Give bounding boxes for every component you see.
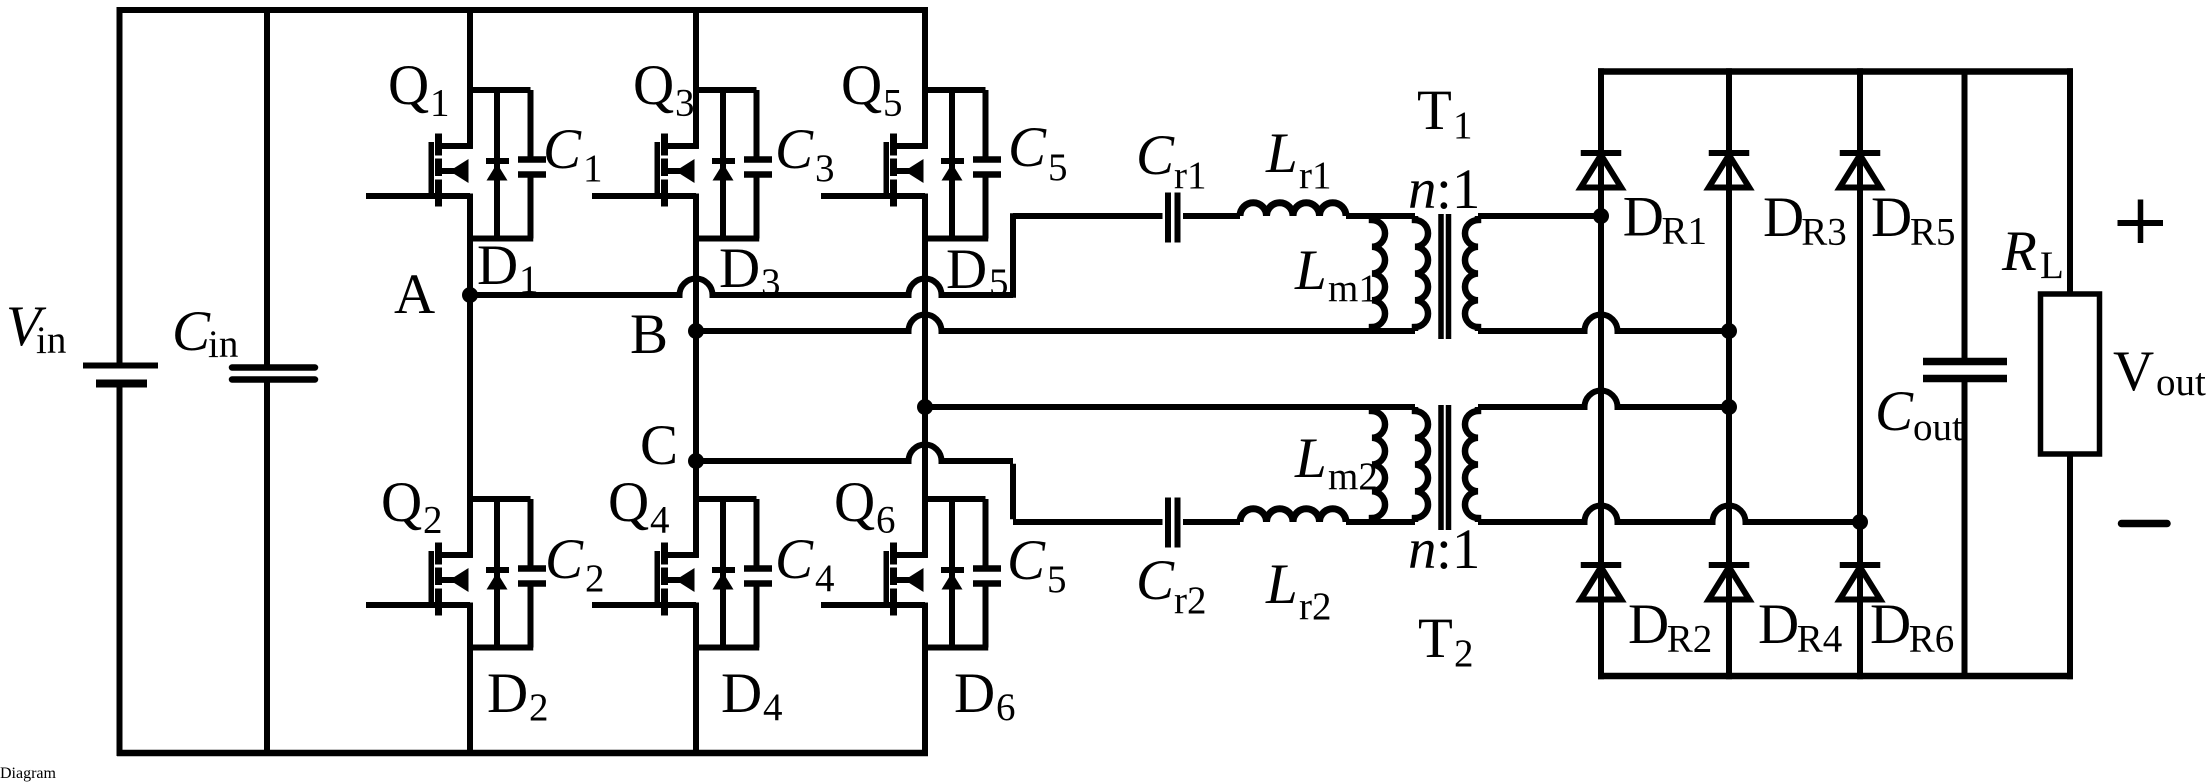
svg-text:r2: r2	[1299, 585, 1332, 628]
capacitor C1 (parallel with Q1)	[518, 90, 546, 239]
wire: rectifier top rail	[1598, 68, 2073, 75]
plus sign (output +)	[2118, 200, 2164, 244]
svg-text:C: C	[775, 528, 814, 591]
svg-text:4: 4	[650, 499, 670, 542]
svg-text:n: n	[1408, 518, 1437, 581]
inductor Lm1	[1372, 216, 1385, 331]
svg-text:L: L	[1294, 239, 1327, 302]
wire: node B to T1 primary bottom	[696, 315, 1415, 332]
svg-text:L: L	[1265, 122, 1298, 185]
svg-text:B: B	[630, 303, 668, 366]
resistor RL	[2041, 294, 2100, 454]
transistor Q1	[366, 134, 473, 242]
wire: Cr2 to Lr2	[1183, 519, 1240, 525]
wire: rectifier bottom rail	[1598, 673, 2073, 680]
capacitor C2 (parallel with Q2)	[518, 499, 546, 648]
svg-text:L: L	[2040, 244, 2064, 287]
wire: drain lead of Q4	[693, 461, 699, 558]
capacitor C5 (parallel with Q5)	[973, 90, 1001, 239]
svg-text:C: C	[1136, 549, 1175, 612]
svg-text:Q: Q	[633, 54, 674, 117]
svg-text:6: 6	[876, 499, 896, 542]
svg-text::1: :1	[1436, 518, 1480, 581]
svg-text:Q: Q	[388, 54, 429, 117]
svg-text:D: D	[487, 662, 528, 725]
wire: rectifier leg B	[1726, 68, 1732, 679]
svg-text:D: D	[1871, 186, 1912, 249]
svg-text:D: D	[719, 237, 760, 300]
wire: snubber loop of Q2	[470, 499, 533, 648]
svg-text:m1: m1	[1328, 267, 1378, 310]
svg-text:2: 2	[423, 499, 443, 542]
diode DR2	[1581, 565, 1622, 600]
capacitor Cin	[232, 7, 315, 756]
capacitor C4 (parallel with Q4)	[744, 499, 772, 648]
node A	[462, 287, 478, 303]
svg-text:4: 4	[815, 557, 835, 600]
svg-text:in: in	[208, 323, 238, 366]
wire: drain lead of Q6	[922, 407, 928, 558]
wire: drain lead of Q5	[922, 10, 928, 149]
wire: source lead of Q6	[922, 648, 928, 753]
svg-text:Q: Q	[834, 471, 875, 534]
svg-text:R6: R6	[1909, 618, 1955, 661]
svg-text:2: 2	[529, 686, 549, 729]
svg-text:D: D	[954, 662, 995, 725]
svg-text:out: out	[2156, 361, 2206, 404]
svg-text:A: A	[394, 263, 435, 326]
wire: snubber loop of Q1	[470, 90, 533, 239]
svg-text::1: :1	[1436, 158, 1480, 221]
svg-text:D: D	[1623, 185, 1664, 248]
svg-text:R5: R5	[1910, 211, 1956, 254]
svg-text:1: 1	[583, 147, 603, 190]
node C	[688, 453, 704, 469]
wire: RL leg lower	[2067, 452, 2073, 679]
svg-text:6: 6	[996, 686, 1016, 729]
diode D6 (body diode of Q6)	[941, 499, 964, 648]
svg-text:Q: Q	[841, 54, 882, 117]
svg-text:C: C	[1007, 529, 1046, 592]
wire: source lead of Q3	[693, 239, 699, 461]
wire: tank 2 line to Cr2	[1013, 519, 1163, 525]
capacitor Cout	[1923, 72, 2007, 677]
svg-text:out: out	[1913, 406, 1963, 449]
svg-text:R1: R1	[1662, 210, 1708, 253]
transistor Q2	[366, 543, 473, 651]
svg-text:D: D	[477, 234, 518, 297]
wire: snubber loop of Q4	[696, 499, 759, 648]
svg-text:L: L	[1294, 427, 1327, 490]
transformer T2 core	[1441, 405, 1449, 530]
node: T1 secondary top junction	[1593, 208, 1609, 224]
svg-text:D: D	[1870, 593, 1911, 656]
svg-text:r1: r1	[1299, 154, 1332, 197]
transformer T2 secondary winding	[1465, 407, 1478, 522]
svg-text:Q: Q	[381, 471, 422, 534]
transformer T1 secondary winding	[1465, 216, 1478, 331]
svg-text:4: 4	[763, 686, 783, 729]
wire: snubber loop of Q3	[696, 90, 759, 239]
svg-text:m2: m2	[1328, 455, 1378, 498]
wire: bottom input rail	[117, 750, 928, 757]
wire: rectifier leg A	[1598, 68, 1604, 679]
svg-text:r2: r2	[1174, 579, 1207, 622]
voltage source Vin	[83, 7, 158, 756]
wire: top input rail	[117, 7, 928, 13]
transistor Q4	[592, 543, 699, 651]
wire: source lead of Q1	[467, 239, 473, 295]
diode D3 (body diode of Q3)	[712, 90, 735, 239]
inductor Lr1	[1240, 203, 1346, 216]
wire: T2 secondary top to rectifier	[1478, 391, 1729, 407]
inductor Lr2	[1240, 509, 1346, 522]
svg-text:T: T	[1417, 79, 1452, 142]
svg-text:r1: r1	[1174, 154, 1207, 197]
svg-text:n: n	[1408, 158, 1437, 221]
node at leg 3 midpoint	[917, 399, 933, 415]
svg-text:C: C	[775, 118, 814, 181]
svg-text:D: D	[721, 662, 762, 725]
wire: snubber loop of Q6	[925, 499, 988, 648]
svg-text:3: 3	[675, 82, 695, 125]
svg-text:5: 5	[1048, 146, 1068, 189]
wire: T1 secondary top to rectifier	[1478, 213, 1601, 219]
wire: rectifier leg C	[1857, 68, 1863, 679]
svg-text:1: 1	[430, 82, 450, 125]
capacitor Cr1	[1168, 193, 1178, 243]
node: T2 secondary bottom junction	[1852, 514, 1868, 530]
wire: Cr1 to Lr1	[1183, 213, 1240, 219]
diode DR5	[1840, 153, 1881, 188]
svg-text:C: C	[1875, 380, 1914, 443]
wire: RL leg upper	[2067, 68, 2073, 296]
diode D1 (body diode of Q1)	[486, 90, 509, 239]
diode D4 (body diode of Q4)	[712, 499, 735, 648]
svg-text:2: 2	[1454, 632, 1474, 675]
svg-text:5: 5	[1047, 558, 1067, 601]
svg-text:R3: R3	[1801, 211, 1847, 254]
wire: node A to tank 1 feed	[470, 279, 1013, 296]
svg-text:C: C	[545, 528, 584, 591]
svg-text:C: C	[1136, 124, 1175, 187]
node B	[688, 323, 704, 339]
transformer T1 core	[1441, 214, 1449, 339]
svg-text:3: 3	[815, 147, 835, 190]
minus sign (output −)	[2122, 520, 2168, 528]
svg-text:C: C	[543, 118, 582, 181]
wire: source lead of Q2	[467, 648, 473, 753]
node: T1 secondary bottom junction	[1721, 323, 1737, 339]
svg-text:R: R	[2001, 220, 2037, 283]
wire: T1 secondary bottom to rectifier	[1478, 315, 1729, 332]
svg-text:V: V	[2113, 340, 2154, 403]
diode DR6	[1840, 565, 1881, 600]
inductor Lm2	[1372, 407, 1385, 522]
capacitor Cr2	[1168, 498, 1178, 548]
diode DR3	[1709, 153, 1750, 188]
svg-text:R2: R2	[1667, 618, 1713, 661]
transistor Q5	[821, 134, 928, 242]
svg-text:Q: Q	[608, 471, 649, 534]
wire: snubber loop of Q5	[925, 90, 988, 239]
svg-text:C: C	[172, 300, 211, 363]
svg-text:in: in	[36, 319, 66, 362]
transistor Q6	[821, 543, 928, 651]
wire: node C to tank 2 feed	[696, 445, 1013, 462]
wire: drain lead of Q3	[693, 10, 699, 149]
svg-text:1: 1	[1453, 104, 1473, 147]
svg-text:T: T	[1418, 607, 1453, 670]
wire: tank 1 line to Cr1	[1013, 213, 1163, 219]
svg-text:5: 5	[883, 82, 903, 125]
wire: drain lead of Q1	[467, 10, 473, 149]
svg-text:2: 2	[585, 557, 605, 600]
node: T2 secondary top junction	[1721, 399, 1737, 415]
capacitor C3 (parallel with Q3)	[744, 90, 772, 239]
svg-text:C: C	[1008, 116, 1047, 179]
wire: drain lead of Q2	[467, 295, 473, 558]
wire: tank 1 feed riser	[1010, 213, 1016, 298]
svg-text:L: L	[1265, 553, 1298, 616]
svg-text:D: D	[946, 238, 987, 301]
capacitor C5 (parallel with Q6)	[973, 499, 1001, 648]
transformer T2 primary winding	[1415, 407, 1428, 522]
diode D2 (body diode of Q2)	[486, 499, 509, 648]
wire: Lr1 to T1 primary	[1346, 213, 1415, 219]
svg-text:D: D	[1628, 593, 1669, 656]
diode DR1	[1581, 153, 1622, 188]
wire: tank 2 feed riser	[1010, 464, 1016, 520]
wire: leg 3 midpoint to T2 primary top	[925, 404, 1415, 410]
wire: source lead of Q4	[693, 648, 699, 753]
svg-text:D: D	[1763, 186, 1804, 249]
wire: source lead of Q5	[922, 239, 928, 407]
diode DR4	[1709, 565, 1750, 600]
wire: Lr2 to T2 primary	[1346, 519, 1415, 525]
transistor Q3	[592, 134, 699, 242]
wire: T2 secondary bottom to rectifier	[1478, 506, 1860, 523]
svg-text:R4: R4	[1797, 618, 1843, 661]
svg-text:C: C	[640, 414, 678, 477]
transformer T1 primary winding	[1415, 216, 1428, 331]
svg-text:D: D	[1758, 593, 1799, 656]
diode D5 (body diode of Q5)	[941, 90, 964, 239]
